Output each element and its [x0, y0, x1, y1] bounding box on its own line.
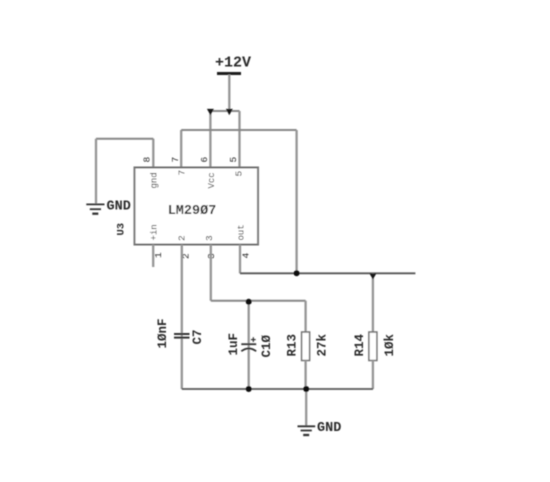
svg-text:7: 7: [170, 157, 181, 163]
wire right vertical down to output node: [295, 130, 297, 273]
wire C10 vertical: [248, 301, 250, 389]
svg-text:6: 6: [199, 157, 210, 163]
junction arrow at pin 6 rail: [207, 109, 214, 115]
junction dot ground tap: [303, 386, 309, 392]
junction dot C10 top: [246, 299, 252, 305]
ground symbol bottom: [298, 426, 316, 435]
wire ground bus: [182, 388, 373, 390]
svg-text:Vcc: Vcc: [207, 172, 217, 188]
wire R13 top stub: [304, 301, 306, 332]
svg-text:5: 5: [228, 157, 239, 163]
svg-text:4: 4: [241, 253, 252, 259]
wire pin 1 stub: [152, 245, 154, 268]
svg-text:C1Ø: C1Ø: [260, 334, 274, 357]
svg-text:U3: U3: [116, 223, 128, 236]
junction arrow at +12V tap: [226, 109, 233, 115]
svg-text:R13: R13: [286, 334, 300, 357]
svg-text:LM29Ø7: LM29Ø7: [168, 204, 217, 219]
svg-text:7: 7: [177, 170, 188, 176]
wire pin 7 up: [180, 130, 182, 168]
junction dot C10 bottom: [246, 386, 252, 392]
plus mark of C10: [251, 337, 256, 342]
ground symbol left: [86, 204, 104, 213]
svg-text:C7: C7: [191, 329, 205, 344]
wire output horizontal: [240, 272, 415, 274]
wire over to R13: [211, 300, 306, 302]
wire R14 up to output: [372, 273, 374, 332]
power +12V bar symbol: [217, 72, 241, 75]
svg-text:2: 2: [177, 235, 188, 241]
wire pin 3 down: [210, 245, 212, 301]
junction arrow R14 tap: [370, 274, 377, 280]
wire R14 bottom: [372, 361, 374, 390]
wire pin 5 up to rail: [238, 111, 240, 168]
svg-text:1Øk: 1Øk: [383, 333, 397, 356]
svg-text:27k: 27k: [316, 333, 330, 356]
svg-text:5: 5: [234, 171, 245, 177]
wire pin 7 over to right: [181, 129, 296, 131]
junction dot output node: [294, 270, 300, 276]
wire over to ground: [96, 138, 153, 140]
svg-text:R14: R14: [353, 333, 367, 356]
svg-text:1ØnF: 1ØnF: [156, 318, 170, 348]
svg-text:GND: GND: [317, 421, 341, 436]
wire pin 2 down to C7 and ground bus: [181, 245, 183, 390]
svg-text:+in: +in: [150, 224, 160, 240]
resistor R13: [302, 332, 310, 361]
svg-text:gnd: gnd: [150, 172, 160, 188]
capacitor C10 polarized: [241, 344, 256, 351]
resistor R14: [369, 332, 377, 361]
wire pin 4 down: [239, 245, 241, 274]
wire pin 8 up: [152, 139, 154, 168]
svg-text:GND: GND: [107, 200, 131, 215]
svg-text:3: 3: [204, 235, 215, 241]
svg-text:out: out: [237, 224, 247, 240]
svg-text:1: 1: [153, 252, 164, 258]
wire ground drop left: [95, 139, 97, 205]
wire from +12V down: [228, 75, 230, 112]
wire down to GND: [305, 389, 307, 426]
svg-text:1uF: 1uF: [227, 333, 241, 356]
IC U3 LM2907 body: [134, 168, 260, 245]
capacitor C7: [174, 334, 190, 338]
wire pin 6 up to rail: [209, 111, 211, 168]
svg-text:+12V: +12V: [215, 55, 251, 72]
wire Vcc rail horizontal: [210, 110, 239, 112]
wire R13 bottom: [304, 361, 306, 390]
svg-text:8: 8: [142, 157, 153, 163]
